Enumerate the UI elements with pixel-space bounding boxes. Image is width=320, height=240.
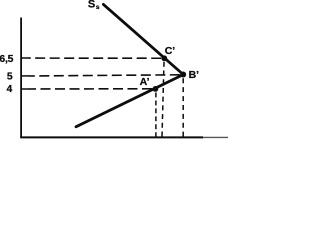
svg-text:A’: A’ [140, 76, 150, 88]
svg-text:4: 4 [7, 84, 13, 95]
svg-text:6,5: 6,5 [0, 54, 14, 65]
svg-text:C’: C’ [165, 45, 176, 57]
svg-text:B’: B’ [189, 69, 200, 81]
svg-text:5: 5 [7, 72, 13, 83]
svg-text:s: s [96, 4, 100, 11]
svg-text:S: S [88, 0, 95, 10]
